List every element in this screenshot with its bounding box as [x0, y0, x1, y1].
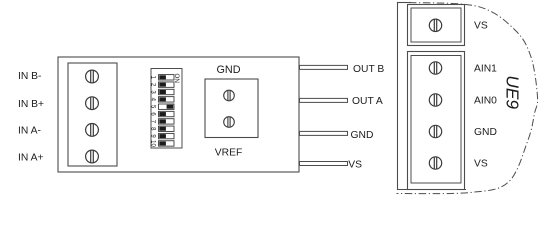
svg-text:10: 10 — [150, 140, 156, 147]
UE9 body bottom edge — [397, 189, 466, 191]
screw terminal IN A- — [86, 123, 99, 136]
UE9 AIN terminal block outer — [408, 52, 465, 190]
svg-text:UE9: UE9 — [502, 75, 522, 109]
svg-text:VREF: VREF — [215, 147, 242, 158]
DIP switch positions 1-10 — [150, 75, 175, 148]
switch 10 (left) — [159, 141, 175, 146]
screw terminal GND (UE9) — [429, 125, 441, 137]
switch 2 (left) — [159, 82, 175, 87]
svg-text:IN B+: IN B+ — [18, 99, 44, 110]
UE9 body outline (dash-dot torn edge) — [397, 3, 538, 194]
svg-text:IN A-: IN A- — [18, 125, 41, 136]
switch 1 (left) — [159, 75, 175, 80]
DIP switch S1 body — [151, 69, 182, 149]
screw terminal AIN1 — [429, 62, 441, 74]
screw terminal VS (bottom) — [429, 157, 441, 169]
svg-text:VS: VS — [474, 21, 488, 32]
main device box U1 — [58, 57, 299, 172]
pin OUT B — [300, 65, 348, 69]
svg-text:IN A+: IN A+ — [18, 152, 43, 163]
screw terminal VS (top) — [429, 19, 441, 31]
screw terminal VREF — [224, 117, 235, 128]
switch 9 (left) — [159, 133, 175, 138]
svg-text:OUT A: OUT A — [352, 96, 383, 107]
input terminal block J1 — [68, 63, 117, 166]
switch 5 (right) — [159, 104, 175, 109]
UE9 VS terminal block (top) outer — [408, 5, 465, 46]
screw terminal IN B+ — [86, 97, 99, 110]
screw terminal AIN0 — [429, 94, 441, 106]
svg-text:GND: GND — [474, 127, 497, 138]
pin OUT A — [300, 98, 348, 102]
svg-text:OUT B: OUT B — [353, 64, 384, 75]
screw terminal IN B- — [86, 70, 99, 83]
svg-text:GND: GND — [217, 64, 241, 76]
svg-text:VS: VS — [474, 159, 488, 170]
switch 8 (left) — [159, 126, 175, 131]
pin VS — [300, 162, 348, 166]
switch 6 (left) — [159, 111, 175, 116]
UE9 body left edge — [397, 3, 399, 190]
UE9 body top edge stub — [397, 2, 411, 4]
svg-text:GND: GND — [351, 130, 374, 141]
svg-text:AIN0: AIN0 — [474, 96, 497, 107]
switch 3 (left) — [159, 89, 175, 94]
svg-text:VS: VS — [348, 159, 362, 170]
switch 7 (left) — [159, 119, 175, 124]
screw terminal GND — [224, 90, 235, 101]
svg-text:IN B-: IN B- — [18, 71, 41, 82]
GND/VREF terminal block J2 — [205, 79, 258, 138]
UE9 VS terminal block (top) inner — [411, 8, 461, 42]
svg-text:AIN1: AIN1 — [474, 64, 497, 75]
UE9 AIN terminal block inner — [411, 56, 461, 184]
switch 4 (left) — [159, 97, 175, 102]
pin GND — [300, 131, 348, 135]
screw terminal IN A+ — [86, 150, 99, 163]
